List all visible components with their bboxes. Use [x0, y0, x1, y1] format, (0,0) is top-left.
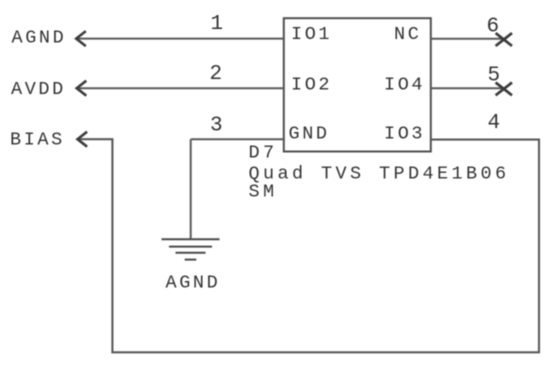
- svg-text:BIAS: BIAS: [10, 130, 65, 151]
- svg-text:2: 2: [210, 63, 223, 86]
- svg-text:3: 3: [210, 114, 223, 137]
- svg-text:AGND: AGND: [12, 27, 67, 48]
- svg-text:AVDD: AVDD: [11, 79, 66, 100]
- svg-text:IO3: IO3: [384, 124, 425, 145]
- wire BIAS to bottom loop: [77, 139, 539, 352]
- svg-text:Quad TVS TPD4E1B06: Quad TVS TPD4E1B06: [249, 164, 510, 185]
- svg-text:IO4: IO4: [384, 75, 425, 96]
- port arrow AVDD: [77, 81, 87, 96]
- TVS diode array D7 body: [284, 18, 431, 151]
- wire ground drop: [190, 139, 192, 239]
- wire pin5 IO4 stub: [431, 87, 504, 89]
- svg-text:AGND: AGND: [166, 273, 221, 294]
- port arrow BIAS: [78, 132, 88, 147]
- no-connect X pin6: [496, 33, 512, 46]
- svg-text:GND: GND: [289, 124, 330, 145]
- svg-text:IO2: IO2: [291, 75, 332, 96]
- port arrow AGND: [76, 31, 86, 46]
- svg-text:SM: SM: [249, 182, 278, 203]
- svg-text:NC: NC: [394, 24, 421, 45]
- wire pin2 AVDD to IO2: [77, 87, 284, 89]
- svg-text:D7: D7: [249, 143, 278, 164]
- svg-text:IO1: IO1: [291, 24, 332, 45]
- wire pin3 GND stub: [191, 138, 284, 140]
- svg-text:4: 4: [488, 112, 501, 135]
- ground symbol AGND: [162, 239, 220, 259]
- wire pin1 AGND to IO1: [76, 38, 284, 40]
- no-connect X pin5: [496, 83, 512, 96]
- wire pin6 NC stub: [431, 38, 504, 40]
- svg-text:1: 1: [211, 13, 224, 36]
